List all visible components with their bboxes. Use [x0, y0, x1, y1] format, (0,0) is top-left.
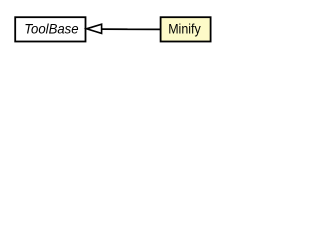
- class box Minify (highlighted current class): [161, 17, 211, 41]
- label Minify: [168, 22, 201, 37]
- background: [0, 0, 225, 59]
- wire: connector line from Minify to arrowhead: [102, 28, 161, 30]
- label ToolBase: [24, 21, 79, 37]
- svg-text:ToolBase: ToolBase: [24, 21, 79, 37]
- svg-text:Minify: Minify: [168, 22, 201, 37]
- inheritance arrowhead (hollow triangle): [87, 24, 102, 33]
- class box ToolBase (abstract superclass): [15, 17, 85, 41]
